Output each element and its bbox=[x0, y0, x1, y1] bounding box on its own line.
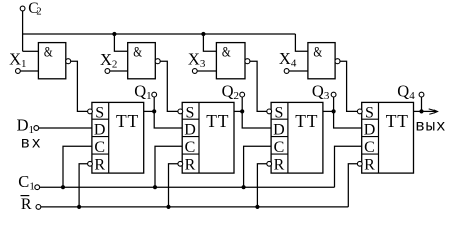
flip-flop U3 (TT) bbox=[267, 102, 323, 173]
svg-text:C: C bbox=[274, 139, 285, 156]
wire C2 branch to G4 bbox=[295, 34, 308, 51]
wire X2 to gate bbox=[110, 70, 128, 72]
svg-text:S: S bbox=[95, 104, 104, 121]
node C2-G2 junction bbox=[112, 32, 116, 36]
svg-text:TT: TT bbox=[116, 111, 139, 131]
wire X4 to gate bbox=[289, 70, 308, 72]
wire C1 bus bbox=[40, 186, 335, 188]
svg-text:C: C bbox=[94, 139, 105, 156]
svg-text:вх: вх bbox=[21, 135, 43, 153]
flip-flop U2 (TT) bbox=[178, 102, 234, 173]
and-gate G4 (NAND) bbox=[308, 43, 340, 79]
terminal X1 bbox=[9, 49, 26, 73]
node R-FF1 junction bbox=[77, 205, 81, 209]
wire C2 to G1 bbox=[23, 50, 39, 52]
svg-text:C: C bbox=[364, 139, 375, 156]
node Q2 junction bbox=[240, 109, 244, 113]
svg-text:2: 2 bbox=[36, 7, 41, 18]
svg-text:вых: вых bbox=[415, 117, 446, 135]
svg-text:R: R bbox=[274, 157, 285, 174]
flip-flop U1 (TT) bbox=[88, 102, 144, 173]
svg-text:R: R bbox=[364, 157, 375, 174]
terminal C2 bbox=[20, 0, 41, 18]
wire FF2 R input bbox=[169, 164, 179, 207]
svg-text:&: & bbox=[133, 45, 142, 61]
wire X3 to gate bbox=[197, 70, 216, 72]
svg-text:R: R bbox=[185, 157, 196, 174]
svg-text:C: C bbox=[185, 139, 196, 156]
wire R bus bbox=[41, 206, 349, 208]
node Q3 junction bbox=[332, 109, 336, 113]
terminal X2 bbox=[100, 50, 117, 74]
wire Q4 up bbox=[421, 97, 423, 111]
terminal R-bar bbox=[21, 196, 41, 213]
svg-text:R: R bbox=[94, 157, 105, 174]
terminal Q4 bbox=[397, 82, 424, 103]
wire D1 to FF1 D bbox=[39, 127, 92, 129]
node R-FF3 junction bbox=[255, 205, 259, 209]
wire G2 output to FF2 S bbox=[160, 61, 178, 111]
wire X1 to gate bbox=[20, 70, 38, 72]
and-gate G2 (NAND) bbox=[128, 43, 161, 79]
wire FF1 C input bbox=[63, 146, 92, 187]
wire FF2 C input bbox=[155, 146, 182, 187]
terminal D1 (vx input) bbox=[17, 115, 43, 152]
and-gate G1 (NAND) bbox=[38, 43, 70, 79]
node Q1 junction bbox=[152, 109, 156, 113]
node C1-FF3 junction bbox=[242, 185, 246, 189]
wire Q1 up bbox=[153, 97, 155, 111]
wire G1 output to FF1 S bbox=[71, 61, 88, 111]
wire FF1 R input bbox=[79, 164, 88, 207]
node R-FF2 junction bbox=[166, 205, 170, 209]
wire C2 branch to G3 bbox=[203, 34, 216, 51]
wire FF4 C input bbox=[335, 146, 362, 187]
svg-text:S: S bbox=[365, 104, 374, 121]
wire Q2 up bbox=[241, 97, 243, 111]
terminal Q1 bbox=[134, 82, 156, 103]
svg-text:D: D bbox=[364, 122, 376, 139]
svg-text:D: D bbox=[94, 122, 106, 139]
svg-text:TT: TT bbox=[386, 111, 409, 131]
svg-text:D: D bbox=[273, 122, 285, 139]
wire FF4 R input bbox=[348, 164, 357, 207]
terminal X4 bbox=[279, 49, 297, 73]
wire C2 branch to G2 bbox=[114, 34, 127, 51]
wire G4 output to FF4 S bbox=[340, 61, 358, 111]
svg-text:S: S bbox=[186, 104, 195, 121]
svg-text:&: & bbox=[222, 45, 231, 61]
wire FF3 C input bbox=[244, 146, 272, 187]
terminal Q3 bbox=[312, 82, 336, 103]
terminal Q2 bbox=[222, 82, 245, 103]
svg-text:R: R bbox=[21, 196, 32, 213]
terminal C1 bbox=[18, 172, 39, 193]
wire C2 vertical bbox=[22, 11, 24, 51]
svg-text:D: D bbox=[184, 122, 196, 139]
node C1-FF2 junction bbox=[153, 185, 157, 189]
terminal X3 bbox=[188, 49, 206, 73]
wire Q1 to FF2 D bbox=[154, 111, 182, 128]
flip-flop U4 (TT) bbox=[357, 102, 413, 173]
wire output arrow (vyh) bbox=[415, 109, 446, 135]
wire FF1 Q output bbox=[144, 110, 155, 112]
wire Q3 to FF4 D bbox=[334, 111, 362, 128]
wire Q2 to FF3 D bbox=[242, 111, 271, 128]
and-gate G3 (NAND) bbox=[216, 43, 250, 79]
wire Q3 up bbox=[333, 97, 335, 111]
wire FF2 Q output bbox=[234, 110, 242, 112]
wire FF3 R input bbox=[257, 164, 267, 207]
svg-text:S: S bbox=[274, 104, 283, 121]
node C1-FF1 junction bbox=[61, 185, 65, 189]
wire G3 output to FF3 S bbox=[250, 61, 267, 111]
svg-text:TT: TT bbox=[206, 111, 229, 131]
svg-text:&: & bbox=[44, 45, 53, 61]
node C2-G3 junction bbox=[201, 32, 205, 36]
svg-text:&: & bbox=[313, 45, 322, 61]
wire FF3 Q output bbox=[323, 110, 334, 112]
wire C2 bus bbox=[23, 33, 296, 35]
wire FF4 Q output bbox=[414, 110, 422, 112]
svg-text:TT: TT bbox=[295, 111, 318, 131]
node Q4 junction bbox=[419, 109, 423, 113]
